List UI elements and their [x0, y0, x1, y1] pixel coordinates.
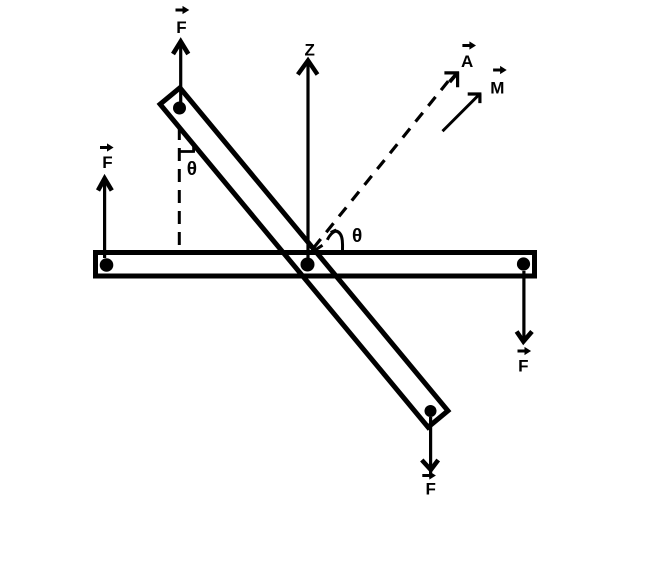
arrowhead of dashed line: [444, 72, 459, 88]
horizontal rod: [96, 253, 535, 277]
pivot dot center: [301, 258, 315, 272]
svg-text:A: A: [461, 52, 473, 71]
pivot dot top-left end of diagonal rod: [173, 102, 186, 115]
svg-text:F: F: [426, 480, 436, 499]
Z axis arrow: [306, 61, 309, 259]
svg-text:M: M: [490, 79, 504, 98]
force arrow F4 (bottom, down): [429, 417, 432, 478]
right-angle tick mark: [179, 144, 194, 153]
diagonal rod: [160, 88, 448, 427]
vector hat over F3: [518, 350, 527, 353]
force arrow F1 (top-left, up): [179, 42, 182, 104]
pivot dot left: [100, 258, 114, 272]
dashed vertical construction line: [178, 127, 181, 248]
arc tail tick: [316, 245, 323, 249]
pivot dot right: [517, 257, 530, 270]
svg-text:F: F: [176, 18, 186, 37]
svg-text:F: F: [518, 357, 528, 376]
svg-text:F: F: [102, 153, 112, 172]
vector hat over F1: [176, 9, 185, 12]
vector hat over M: [493, 69, 502, 72]
force arrow F3 (right, down): [522, 271, 525, 340]
vector hat over F2: [100, 146, 109, 149]
svg-text:θ: θ: [187, 159, 197, 180]
dashed line A direction: [314, 77, 453, 249]
pivot dot bottom-right end of diagonal rod: [425, 405, 437, 417]
arc arrowhead barb: [331, 230, 337, 233]
theta arc at center: [327, 231, 342, 250]
svg-text:θ: θ: [352, 226, 362, 247]
vector hat over F4: [422, 474, 431, 477]
vector hat over A: [462, 44, 471, 47]
force arrow F2 (left, up): [103, 179, 106, 258]
dashed line tip stub: [450, 74, 457, 82]
svg-text:Z: Z: [305, 40, 315, 59]
moment arrow M: [443, 94, 480, 131]
